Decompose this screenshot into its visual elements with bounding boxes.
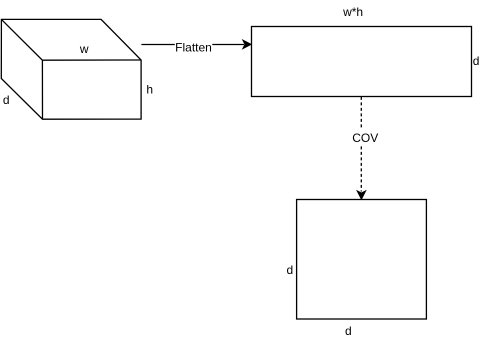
svg-text:d: d <box>3 93 10 107</box>
svg-text:w*h: w*h <box>342 5 363 19</box>
svg-text:w: w <box>79 42 89 56</box>
svg-text:d: d <box>345 324 352 338</box>
svg-text:COV: COV <box>352 131 378 145</box>
svg-text:d: d <box>286 263 293 277</box>
svg-text:d: d <box>473 54 480 68</box>
svg-text:Flatten: Flatten <box>175 40 212 54</box>
svg-text:h: h <box>146 83 153 97</box>
